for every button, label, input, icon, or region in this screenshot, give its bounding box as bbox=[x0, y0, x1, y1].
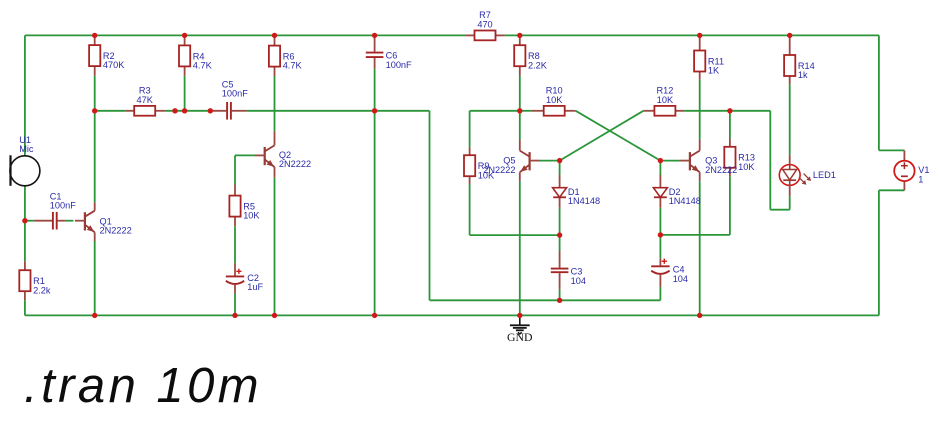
wire: R3 to C5 bbox=[165, 110, 210, 112]
resistor R3 (47K) bbox=[126, 86, 166, 116]
wire: Q3 emitter to bottom rail bbox=[699, 181, 701, 315]
wire: cross wire R12 to Q5 base node bbox=[560, 111, 644, 161]
wire: mic to R1 bbox=[24, 186, 26, 261]
capacitor C1 (100nF) bbox=[34, 192, 76, 230]
svg-text:100nF: 100nF bbox=[222, 89, 248, 99]
wire: node to R10 bbox=[520, 110, 532, 112]
junction at (94.7,110.8) bbox=[92, 108, 97, 113]
svg-text:2N2222: 2N2222 bbox=[100, 226, 132, 236]
svg-text:47K: 47K bbox=[137, 95, 154, 105]
wire: node down to R13 bbox=[729, 111, 731, 139]
wire: Q5 emitter to GND rail bbox=[519, 181, 521, 315]
junction at (699.7,35.4) bbox=[697, 33, 702, 38]
svg-text:10K: 10K bbox=[738, 162, 755, 172]
resistor R7 (470) bbox=[465, 10, 505, 40]
junction at (24.9,220.7) bbox=[22, 218, 27, 223]
resistor R5 (10K) bbox=[229, 185, 260, 227]
wire: C1 to Q1 base bbox=[65, 220, 73, 222]
transistor Q3 (2N2222) bbox=[680, 139, 737, 181]
wire: D1 to node bbox=[559, 208, 561, 235]
wire: Q5 base wire bbox=[539, 160, 559, 162]
wire: node down to C3 bbox=[559, 235, 561, 251]
wire: Q2 base wire bbox=[235, 154, 255, 156]
wire: R8 down to node bbox=[519, 76, 521, 111]
wire: R6 down to Q2 collector bbox=[274, 76, 276, 131]
junction at (729.9,110.8) bbox=[727, 108, 732, 113]
svg-text:1K: 1K bbox=[708, 66, 720, 76]
svg-text:10K: 10K bbox=[657, 95, 674, 105]
resistor R10 (10K) bbox=[531, 86, 575, 116]
wire: node to R13 bottom bbox=[660, 234, 730, 236]
junction at (519.8,110.8) bbox=[517, 108, 522, 113]
wire: node down to Q5 collector bbox=[519, 111, 521, 140]
svg-text:1: 1 bbox=[918, 174, 923, 184]
wire: R8 node to R9 bbox=[470, 110, 520, 112]
junction at (374.6,35.4) bbox=[372, 33, 377, 38]
junction at (699.7,315.4) bbox=[697, 313, 702, 318]
wire: R9 down bbox=[469, 184, 471, 235]
svg-text:1uF: 1uF bbox=[247, 282, 263, 292]
capacitor C3 (104) bbox=[551, 251, 586, 290]
svg-text:2N2222: 2N2222 bbox=[279, 159, 311, 169]
wire: R4 down to row bbox=[184, 76, 186, 111]
junction at (559.6,235.1) bbox=[557, 232, 562, 237]
junction at (274.5,315.4) bbox=[272, 313, 277, 318]
junction at (175,110.8) bbox=[172, 108, 177, 113]
junction at (210.3,110.8) bbox=[208, 108, 213, 113]
capacitor C6 (100nF) bbox=[366, 35, 412, 69]
svg-text:LED1: LED1 bbox=[813, 170, 836, 180]
capacitor C2 (1uF) polarized bbox=[226, 263, 264, 293]
wire: top rail left segment bbox=[25, 34, 465, 36]
resistor R6 (4.7K) bbox=[269, 35, 303, 76]
ground symbol GND bbox=[507, 315, 533, 344]
resistor R13 (10K) bbox=[724, 138, 755, 176]
wire: R13 down bbox=[729, 176, 731, 235]
svg-text:1k: 1k bbox=[798, 70, 808, 80]
resistor R12 (10K) bbox=[643, 86, 684, 116]
wire: node down to D1 bbox=[559, 161, 561, 175]
junction at (94.7,315.4) bbox=[92, 313, 97, 318]
junction at (374.6,315.4) bbox=[372, 313, 377, 318]
svg-text:Mic: Mic bbox=[19, 144, 34, 154]
svg-text:.tran 10m: .tran 10m bbox=[24, 359, 262, 413]
resistor R4 (4.7K) bbox=[179, 35, 213, 75]
wire: C3 to node bbox=[559, 290, 561, 301]
wire: C2 to bottom rail bbox=[234, 294, 236, 316]
svg-text:1N4148: 1N4148 bbox=[669, 196, 701, 206]
wire: left edge down to mic bbox=[24, 35, 26, 155]
wire: to LED bottom bbox=[770, 209, 789, 211]
wire: top rail right segment bbox=[505, 34, 879, 36]
wire: node down to D2 bbox=[659, 161, 661, 175]
wire: Q2 base down to R5 bbox=[234, 155, 236, 184]
junction at (559.6,300.3) bbox=[557, 298, 562, 303]
junction at (235,315.4) bbox=[232, 313, 237, 318]
resistor R2 (470K) bbox=[89, 35, 125, 75]
svg-text:1N4148: 1N4148 bbox=[568, 196, 600, 206]
junction at (519.8,315.4) bbox=[517, 313, 522, 318]
junction at (789.7,35.4) bbox=[787, 33, 792, 38]
wire: jog from V1 bottom bbox=[879, 189, 905, 191]
junction at (559.6,160.6) bbox=[557, 158, 562, 163]
capacitor C4 (104) polarized bbox=[651, 258, 688, 287]
svg-text:2N2222: 2N2222 bbox=[705, 165, 737, 175]
LED LED1 bbox=[779, 155, 836, 197]
wire: bottom rail bbox=[25, 314, 879, 316]
wire: C6 down to bottom rail bbox=[374, 69, 376, 316]
svg-text:2.2K: 2.2K bbox=[528, 60, 548, 70]
voltage source V1 bbox=[894, 150, 929, 190]
wire: Q3 base wire bbox=[660, 160, 680, 162]
svg-text:10K: 10K bbox=[243, 211, 260, 221]
wire: R2 to Q1 collector bbox=[94, 76, 96, 203]
resistor R14 (1k) bbox=[784, 35, 815, 84]
junction at (660.4,234.9) bbox=[658, 232, 663, 237]
svg-text:4.7K: 4.7K bbox=[283, 61, 303, 71]
wire: right edge down to bottom rail bbox=[878, 190, 880, 315]
wire: up to C4 bottom bbox=[659, 287, 661, 300]
junction at (274.5,35.4) bbox=[272, 33, 277, 38]
wire: R9 to D1/C3 node bbox=[470, 234, 560, 236]
junction at (184.6,35.4) bbox=[182, 33, 187, 38]
wire: LED bottom up bbox=[789, 196, 791, 210]
diode D2 (1N4148) bbox=[653, 175, 700, 208]
svg-text:104: 104 bbox=[571, 276, 586, 286]
wire: LED branch down bbox=[769, 111, 771, 210]
wire: node to C1 bbox=[25, 220, 34, 222]
svg-text:104: 104 bbox=[673, 274, 688, 284]
svg-text:470: 470 bbox=[477, 19, 492, 29]
resistor R11 (1K) bbox=[694, 35, 724, 79]
junction at (94.7,35.4) bbox=[92, 33, 97, 38]
diode D1 (1N4148) bbox=[553, 175, 600, 208]
wire: D2 to node bbox=[659, 208, 661, 235]
resistor R9 (10K) bbox=[464, 147, 495, 184]
wire: right edge down to V1 bbox=[878, 35, 880, 150]
microphone U1 (Mic) bbox=[10, 135, 40, 186]
junction at (184.6,110.8) bbox=[182, 108, 187, 113]
svg-text:4.7K: 4.7K bbox=[193, 61, 213, 71]
svg-text:470K: 470K bbox=[103, 60, 125, 70]
wire: Q1 emitter to bottom rail bbox=[94, 241, 96, 315]
wire: R11 to Q3 collector bbox=[699, 79, 701, 139]
wire: R12 to R13 node bbox=[684, 110, 730, 112]
wire: node to R3 bbox=[95, 110, 126, 112]
capacitor C5 (100nF) bbox=[210, 79, 248, 119]
wire: jog horizontal to C4 bbox=[430, 299, 661, 301]
svg-text:2N2222: 2N2222 bbox=[483, 165, 515, 175]
wire: jog vertical bbox=[429, 111, 431, 300]
wire: jog to V1 top bbox=[879, 149, 905, 151]
svg-text:GND: GND bbox=[507, 330, 533, 344]
svg-text:2.2k: 2.2k bbox=[33, 285, 51, 295]
junction at (374.6,110.8) bbox=[372, 108, 377, 113]
junction at (519.8,35.4) bbox=[517, 33, 522, 38]
resistor R1 (2.2k) bbox=[19, 261, 51, 300]
svg-text:100nF: 100nF bbox=[386, 60, 412, 70]
wire: cross wire R10 to Q3 base node bbox=[576, 111, 661, 161]
svg-text:10K: 10K bbox=[546, 95, 563, 105]
wire: Q2 emitter to bottom rail bbox=[274, 178, 276, 316]
wire: R1 to bottom rail bbox=[24, 300, 26, 315]
svg-text:100nF: 100nF bbox=[50, 201, 76, 211]
junction at (660.4,160.6) bbox=[658, 158, 663, 163]
transistor Q1 (2N2222) bbox=[75, 202, 132, 241]
wire: LED top to R14 bbox=[789, 84, 791, 154]
transistor Q5 (2N2222) bbox=[483, 139, 539, 181]
wire: node down to C4 bbox=[659, 235, 661, 258]
wire: node to LED branch bbox=[730, 110, 770, 112]
resistor R8 (2.2K) bbox=[514, 35, 548, 75]
wire: down to R9 bbox=[469, 111, 471, 147]
wire: C5 to jog bbox=[247, 110, 430, 112]
transistor Q2 (2N2222) bbox=[255, 131, 311, 178]
wire: R5 to C2 bbox=[234, 226, 236, 263]
